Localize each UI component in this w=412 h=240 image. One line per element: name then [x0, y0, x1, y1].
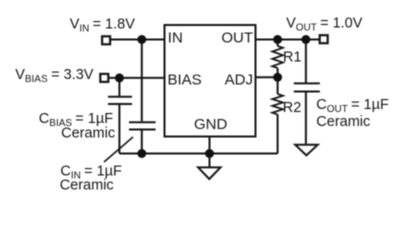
svg-text:ADJ: ADJ	[225, 71, 253, 88]
svg-text:OUT: OUT	[221, 29, 253, 46]
svg-text:R1: R1	[283, 50, 302, 66]
svg-text:GND: GND	[194, 116, 228, 133]
svg-text:R2: R2	[283, 100, 302, 116]
svg-text:Ceramic: Ceramic	[61, 125, 115, 141]
svg-text:Ceramic: Ceramic	[316, 114, 370, 130]
svg-text:IN: IN	[168, 29, 183, 46]
svg-text:Ceramic: Ceramic	[60, 178, 114, 194]
svg-text:BIAS: BIAS	[168, 71, 202, 88]
